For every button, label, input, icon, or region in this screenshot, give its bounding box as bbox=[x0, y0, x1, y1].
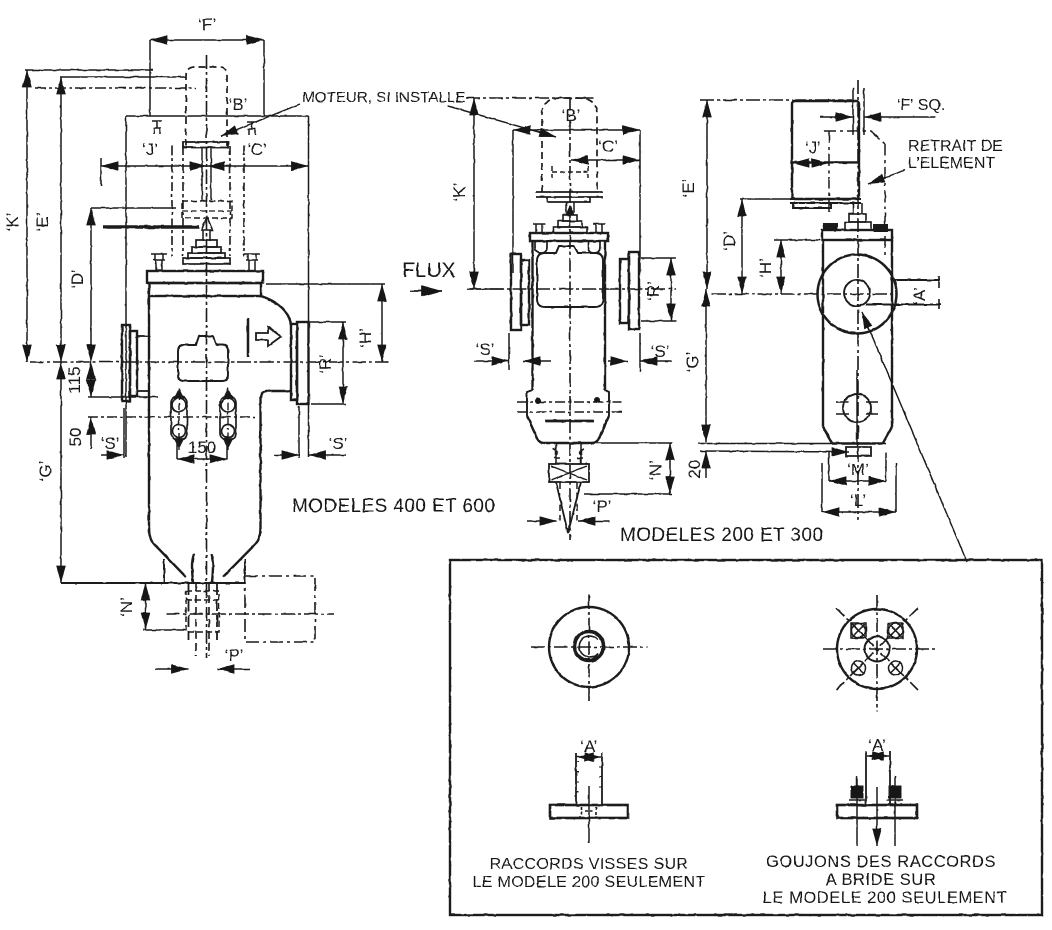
drain boss left bbox=[171, 388, 187, 450]
dim N mid top extension bbox=[595, 442, 672, 444]
motor flange dashes inside dome bbox=[552, 166, 588, 178]
svg-text:‘G’: ‘G’ bbox=[683, 352, 702, 373]
svg-text:‘K’: ‘K’ bbox=[450, 183, 469, 202]
diagonal leader to detail box bbox=[862, 312, 967, 562]
drain tip cone bbox=[556, 482, 581, 533]
dim K mid line bbox=[473, 98, 475, 289]
motor base plate bbox=[183, 142, 228, 148]
FLUX arrow bbox=[410, 290, 442, 292]
right vertical centreline bbox=[857, 80, 859, 520]
small boss circle bbox=[843, 394, 871, 422]
dim J right line bbox=[792, 162, 829, 164]
motor mid dashed outline bbox=[542, 98, 597, 192]
cover plate mid bbox=[530, 233, 608, 241]
stud flange bore circle bbox=[865, 637, 890, 662]
svg-text:LE MODELE 200 SEULEMENT: LE MODELE 200 SEULEMENT bbox=[763, 889, 1008, 907]
dim E line bbox=[60, 77, 62, 362]
body bottom right bbox=[832, 442, 883, 444]
inlet bore circle bbox=[844, 280, 870, 306]
square shaft bbox=[853, 88, 864, 135]
drain nut mid bbox=[549, 464, 589, 482]
stud flange outer circle bbox=[837, 609, 917, 689]
boss tick lines bbox=[836, 402, 878, 414]
body right elbow curve bbox=[261, 296, 291, 324]
stud flange crosshair horizontal bbox=[823, 648, 937, 650]
stud flange crosshair vertical bbox=[876, 595, 878, 711]
indicator pointer heavy line bbox=[103, 225, 199, 228]
right horizontal centreline bbox=[712, 293, 895, 295]
motor box inner line bbox=[792, 161, 859, 163]
svg-text:‘N’: ‘N’ bbox=[117, 597, 136, 617]
bowl bottom line bbox=[541, 442, 595, 444]
dim E extension line bbox=[60, 76, 186, 78]
svg-text:‘E’: ‘E’ bbox=[679, 179, 698, 198]
dim R mid extensions bbox=[641, 257, 676, 259]
svg-text:‘H’: ‘H’ bbox=[356, 328, 375, 348]
dim H right extension bbox=[774, 239, 820, 241]
dim A stud arrows bbox=[867, 755, 877, 757]
ring heavy bar bbox=[545, 420, 594, 423]
svg-text:115: 115 bbox=[65, 366, 84, 393]
svg-text:‘B’: ‘B’ bbox=[229, 95, 248, 114]
svg-text:‘F’: ‘F’ bbox=[198, 15, 216, 34]
dim S right extensions bbox=[298, 406, 300, 458]
drain inner dashed bbox=[196, 583, 209, 656]
svg-text:‘E’: ‘E’ bbox=[33, 213, 52, 232]
dim C line bbox=[207, 165, 309, 167]
stud flange diagonal centrelines bbox=[836, 608, 918, 690]
dim F extension left bbox=[149, 40, 151, 116]
dim L line bbox=[822, 511, 896, 513]
motor mid base bbox=[536, 192, 603, 202]
flow block arrow bbox=[256, 327, 281, 346]
svg-text:‘M’: ‘M’ bbox=[847, 460, 869, 479]
dim N extension bbox=[143, 629, 186, 631]
dim S mid-right extension bbox=[639, 333, 641, 372]
dim H right line bbox=[780, 240, 782, 294]
dim G line bbox=[60, 362, 62, 583]
dim P arrows bbox=[155, 668, 189, 670]
drain centreline bbox=[166, 613, 334, 615]
bowl mid bbox=[527, 416, 609, 444]
coupling collar inner line bbox=[182, 210, 232, 212]
svg-text:MODELES 200 ET 300: MODELES 200 ET 300 bbox=[620, 525, 823, 546]
motor note leader right bbox=[448, 106, 556, 137]
dim 115 line bbox=[90, 362, 92, 397]
motor centre dash-dot line bbox=[35, 87, 196, 89]
frame mid right vertical bbox=[639, 130, 641, 273]
dim K line bbox=[26, 70, 28, 362]
motor box right bbox=[792, 101, 859, 199]
svg-text:‘A’: ‘A’ bbox=[580, 737, 598, 756]
dim S left extension bbox=[123, 408, 125, 458]
stand dash-dot verticals bbox=[172, 146, 244, 256]
dim R mid line bbox=[670, 258, 672, 321]
dim P mid arrows bbox=[527, 520, 557, 522]
svg-text:20: 20 bbox=[685, 460, 704, 479]
dim D line bbox=[90, 208, 92, 362]
dim S right arrows bbox=[274, 454, 299, 456]
elbow underside bbox=[261, 391, 292, 398]
A pipe top bbox=[892, 279, 940, 281]
svg-text:‘G’: ‘G’ bbox=[36, 461, 55, 482]
big inlet circle bbox=[818, 255, 897, 334]
dim S left arrow bbox=[101, 454, 124, 456]
retrait leader bbox=[868, 170, 905, 184]
svg-text:MODELES 400 ET 600: MODELES 400 ET 600 bbox=[292, 496, 495, 517]
svg-text:‘R’: ‘R’ bbox=[316, 354, 335, 374]
screwed pipe walls bbox=[576, 753, 602, 805]
dim F SQ arrows bbox=[820, 116, 853, 118]
gland right bbox=[849, 214, 866, 222]
dim G mid line bbox=[705, 289, 707, 442]
svg-text:‘C’: ‘C’ bbox=[247, 140, 267, 159]
dim L brackets bbox=[822, 463, 896, 512]
cone left bbox=[149, 528, 186, 577]
screwed flange bore arc bbox=[579, 636, 598, 661]
svg-text:‘B’: ‘B’ bbox=[562, 106, 581, 125]
spindle stem bbox=[202, 230, 204, 241]
dim N mid bottom extension bbox=[584, 493, 672, 495]
motor shaft lines bbox=[201, 148, 203, 200]
motor shaft mid bbox=[566, 202, 574, 213]
svg-text:RETRAIT DE: RETRAIT DE bbox=[908, 138, 1003, 155]
lantern ring mid bbox=[527, 390, 609, 416]
body walls mid bbox=[533, 241, 606, 390]
screwed flange thread circle bbox=[575, 632, 604, 661]
outlet flange plate B bbox=[297, 322, 309, 404]
centreline start tick bbox=[467, 288, 503, 290]
drain pipe walls bbox=[189, 583, 218, 640]
screwed flange crosshair horizontal bbox=[531, 646, 647, 648]
svg-text:MOTEUR, SI INSTALLE: MOTEUR, SI INSTALLE bbox=[302, 89, 465, 106]
nipple threads bbox=[553, 443, 584, 464]
main vertical centreline bbox=[206, 55, 208, 658]
svg-text:RACCORDS VISSES SUR: RACCORDS VISSES SUR bbox=[490, 856, 689, 873]
dim D right line bbox=[741, 199, 743, 294]
svg-text:‘S’: ‘S’ bbox=[329, 434, 348, 453]
mid horizontal centreline bbox=[467, 288, 676, 290]
shared extension line upper bbox=[698, 443, 886, 445]
ring plugs bbox=[535, 398, 541, 404]
gland stack bbox=[196, 240, 217, 247]
svg-text:‘N’: ‘N’ bbox=[646, 460, 665, 480]
dim C mid line bbox=[571, 159, 640, 161]
outlet flange plate A bbox=[291, 324, 297, 400]
A pipe bottom bbox=[866, 304, 941, 306]
svg-text:‘A’: ‘A’ bbox=[910, 287, 929, 305]
screwed pipe thread ticks bbox=[576, 762, 602, 792]
dim S mid-right arrows bbox=[608, 360, 628, 362]
dim F extension right bbox=[263, 40, 265, 116]
dim J-C short extension bbox=[100, 158, 102, 186]
shared extension line lower bbox=[700, 451, 849, 452]
screwed flange thread dashes bbox=[582, 807, 597, 816]
svg-text:LE MODELE 200 SEULEMENT: LE MODELE 200 SEULEMENT bbox=[472, 874, 705, 891]
dim A screwed arrows bbox=[577, 756, 589, 758]
central boss mid bbox=[537, 246, 603, 307]
cone right bbox=[223, 528, 261, 577]
frame hanging bolt left bbox=[152, 121, 162, 134]
svg-text:‘F’ SQ.: ‘F’ SQ. bbox=[897, 97, 945, 114]
stud left bolt bbox=[856, 776, 858, 846]
svg-text:‘P’: ‘P’ bbox=[593, 497, 612, 516]
svg-text:‘S’: ‘S’ bbox=[101, 434, 120, 453]
motor base right bbox=[790, 199, 861, 208]
dim F line bbox=[150, 39, 264, 41]
dim 115 extension bbox=[88, 396, 158, 398]
dim R extensions bbox=[303, 321, 346, 323]
dim H extension bbox=[266, 283, 385, 285]
dim N line bbox=[145, 583, 147, 630]
svg-text:‘S’: ‘S’ bbox=[651, 342, 670, 361]
svg-text:‘J’: ‘J’ bbox=[142, 140, 158, 159]
spindle arrow mid bbox=[566, 206, 574, 215]
nut cross lines bbox=[551, 466, 587, 480]
svg-text:‘H’: ‘H’ bbox=[756, 258, 775, 278]
svg-text:‘D’: ‘D’ bbox=[68, 269, 87, 289]
body right wall bbox=[259, 396, 261, 533]
stud right bolt bbox=[894, 776, 896, 846]
body taper right bbox=[823, 427, 892, 443]
stud centre stem with arrow bbox=[876, 787, 878, 846]
mid vertical centreline bbox=[569, 97, 571, 540]
A pipe end cap bbox=[938, 276, 940, 309]
frame left vertical bbox=[125, 116, 127, 457]
stud bolt top-left bbox=[851, 623, 866, 638]
cover bolt left bbox=[151, 254, 167, 271]
svg-text:A BRIDE SUR: A BRIDE SUR bbox=[826, 871, 937, 889]
screwed flange plate bbox=[550, 805, 628, 818]
flow block arrow bar bbox=[247, 318, 250, 357]
ring dash-dot lines bbox=[517, 401, 622, 403]
body walls right bbox=[823, 240, 892, 427]
dim J line bbox=[101, 165, 207, 167]
svg-text:‘K’: ‘K’ bbox=[3, 213, 22, 232]
svg-text:L’ELEMENT: L’ELEMENT bbox=[908, 155, 995, 172]
detail box frame bbox=[450, 560, 1042, 915]
side valve dash-dot box bbox=[245, 576, 315, 642]
svg-text:50: 50 bbox=[66, 428, 85, 447]
dim E mid line bbox=[706, 100, 708, 289]
foot pad bbox=[846, 447, 871, 456]
central boss bbox=[178, 336, 228, 381]
frame hanging bolt right bbox=[247, 122, 257, 135]
motor note leader left bbox=[221, 104, 300, 136]
cover bolt right bbox=[244, 254, 260, 271]
skirt walls bbox=[164, 559, 245, 582]
drain neck walls bbox=[192, 554, 213, 583]
drain boss right bbox=[220, 388, 236, 450]
right flange mid outer bbox=[629, 252, 639, 329]
svg-text:150: 150 bbox=[188, 438, 216, 457]
dim 150 bracket bbox=[177, 440, 227, 459]
cover right drawing bbox=[822, 230, 892, 240]
screwed centre stem bbox=[588, 786, 590, 843]
inlet stub lines bbox=[137, 335, 149, 337]
left flange mid outer bbox=[511, 254, 521, 330]
screwed flange crosshair vertical bbox=[588, 595, 590, 704]
dim M brackets bbox=[829, 452, 886, 481]
skirt bottom with G extension bbox=[61, 582, 245, 584]
dim D extension line bbox=[91, 207, 176, 209]
dim 20 line bbox=[705, 451, 707, 478]
tip dashes bbox=[560, 482, 577, 520]
dim E mid top dash-dot bbox=[700, 99, 852, 101]
frame right vertical bbox=[308, 116, 310, 457]
dim R line bbox=[342, 322, 344, 404]
svg-text:GOUJONS DES RACCORDS: GOUJONS DES RACCORDS bbox=[766, 853, 996, 871]
cover bolts right drawing bbox=[824, 224, 837, 231]
svg-text:‘S’: ‘S’ bbox=[476, 340, 495, 359]
left flange mid inner bbox=[521, 260, 529, 325]
svg-text:‘C’: ‘C’ bbox=[598, 137, 618, 156]
boss stem line bbox=[856, 370, 858, 447]
drain union mid line bbox=[186, 599, 219, 601]
inlet flange outer plate bbox=[122, 325, 130, 401]
gland stack mid bbox=[563, 215, 577, 221]
dim J tail bbox=[829, 162, 859, 164]
dim K extension line bbox=[25, 69, 153, 71]
svg-text:‘A’: ‘A’ bbox=[868, 736, 886, 755]
dim N mid line bbox=[669, 443, 671, 494]
svg-text:FLUX: FLUX bbox=[402, 259, 456, 282]
inlet flange inner plate bbox=[130, 331, 137, 396]
stud bolt top-right bbox=[888, 623, 903, 638]
motor dashed outline bbox=[186, 67, 227, 146]
stud pipe walls bbox=[866, 751, 890, 805]
top dash-dot extension bbox=[466, 97, 594, 99]
dim D right extension bbox=[740, 198, 790, 200]
stud flange plate bbox=[837, 805, 917, 818]
dim S mid-left extension bbox=[508, 333, 510, 370]
cover bolts mid bbox=[533, 224, 605, 233]
frame mid left vertical bbox=[512, 130, 514, 273]
svg-text:‘P’: ‘P’ bbox=[225, 646, 244, 665]
svg-text:‘J’: ‘J’ bbox=[805, 138, 821, 157]
element envelope dash-dot bbox=[824, 131, 885, 258]
stud bolt bottom-right bbox=[889, 661, 903, 675]
frame mid dim line bbox=[513, 129, 640, 131]
stud bolt bottom-left bbox=[852, 661, 866, 675]
right flange mid inner bbox=[620, 259, 629, 323]
dim S mid-left arrows bbox=[474, 360, 509, 362]
boss centreline dash-dot bbox=[88, 416, 255, 418]
cover top plate bbox=[147, 271, 263, 283]
body left wall bbox=[148, 296, 150, 533]
coupling collar dashed box bbox=[182, 201, 232, 218]
dim H line bbox=[381, 284, 383, 362]
indicator pointer triangle bbox=[202, 217, 213, 230]
element stem right bbox=[853, 203, 862, 214]
screwed flange outer circle bbox=[549, 607, 629, 687]
svg-text:‘D’: ‘D’ bbox=[720, 231, 739, 251]
ear bolt holes mid bbox=[535, 241, 547, 253]
main horizontal centreline bbox=[30, 361, 391, 363]
drain union dashed box bbox=[186, 591, 219, 632]
frame top edge bbox=[126, 115, 309, 117]
svg-text:‘L’: ‘L’ bbox=[850, 491, 866, 510]
dim M line bbox=[829, 480, 886, 482]
dim 50 line bbox=[90, 417, 92, 449]
svg-text:‘R’: ‘R’ bbox=[644, 281, 663, 301]
cover bottom plate bbox=[149, 283, 261, 296]
